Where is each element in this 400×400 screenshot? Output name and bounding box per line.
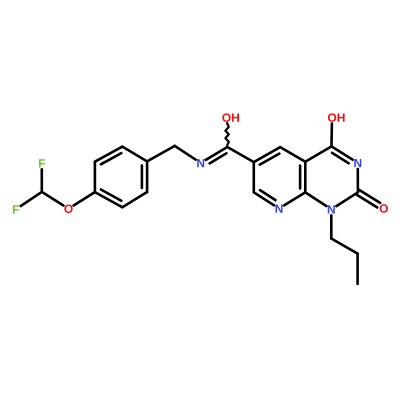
bond N1-C8a	[305, 192, 326, 206]
double bond N8=C7	[254, 190, 276, 205]
bond C9-F2 (C-F)	[21, 192, 42, 206]
double bond benzene right edge	[142, 161, 147, 192]
squiggly bond C8-O1 (amide C-OH, unspecified geometry)	[225, 123, 228, 145]
atom label N1 (ring nitrogen, propyl)	[328, 205, 335, 213]
double bond C4a=C8a (ring fusion)	[300, 162, 305, 193]
bond C5-C4a	[280, 147, 305, 162]
bond C7-C6	[253, 162, 256, 192]
double bond C6=C5	[254, 147, 280, 165]
atom label O2 (carbonyl oxygen)	[380, 204, 388, 212]
bond benzene bottom-right edge	[122, 192, 147, 207]
atom label O1 (amide OH)	[222, 113, 239, 121]
bond O3-ring (O-C aryl)	[74, 192, 95, 205]
atom label N3 (pyrimidine nitrogen)	[354, 159, 361, 167]
bond CH2-N2	[175, 146, 196, 160]
atom label F1 (fluorine)	[39, 159, 45, 167]
bond C4-O4 (C-OH)	[330, 124, 333, 147]
bond C8a-N8	[284, 192, 305, 205]
bond benzene left edge	[94, 162, 97, 192]
double bond C2=O2 (carbonyl)	[357, 190, 381, 208]
double bond C4=N3	[332, 146, 353, 163]
atom label F2 (fluorine)	[13, 205, 19, 213]
bond aryl-CH2 (benzylic)	[147, 146, 175, 162]
atom label N2 (imine nitrogen)	[197, 159, 204, 167]
bond C8-C6 (to ring)	[227, 147, 254, 162]
bond benzene top-right edge	[122, 147, 147, 162]
double bond benzene bottom-left edge	[95, 190, 122, 208]
atom label O3 (ether oxygen)	[64, 205, 72, 213]
bond N1-P1 (propyl)	[330, 215, 333, 238]
bond P2-P3 (propyl CH3)	[356, 254, 359, 284]
bond N3-C2	[356, 169, 359, 192]
bond C9-O3 (C-O ether)	[42, 192, 64, 206]
double bond N2=C8 (imine)	[206, 147, 228, 163]
bond C4a-C4	[305, 146, 331, 161]
bond P1-P2 (propyl)	[331, 239, 357, 254]
double bond benzene top-left edge	[95, 147, 122, 165]
atom label N8 (pyridine nitrogen)	[275, 204, 282, 212]
atom label O4 (4-OH)	[328, 113, 345, 121]
bond C2-N1	[336, 192, 358, 206]
bond F1-C9 (C-F)	[40, 169, 43, 192]
